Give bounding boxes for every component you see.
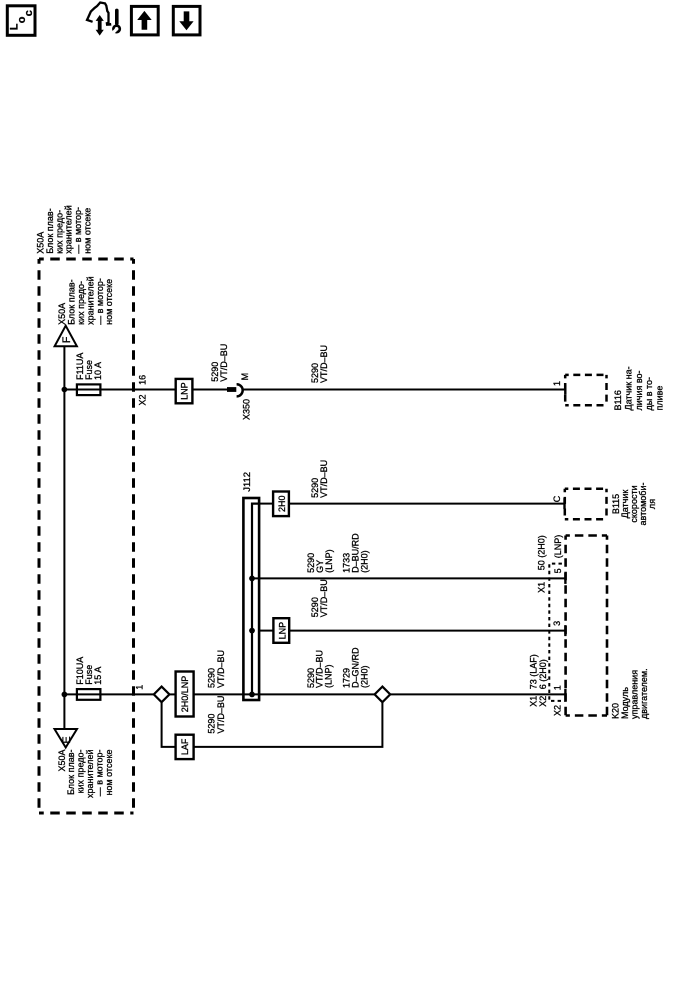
wire label 5290 VT/D-BU — [207, 650, 226, 688]
label fuse F11UA — [75, 353, 103, 380]
wire: J112 to 2H0 box — [259, 503, 273, 505]
svg-text:(LNP): (LNP) — [324, 664, 334, 688]
terminal at B116 pin 1 — [564, 385, 566, 395]
wire: bus through fuse F11UA to LNP box — [64, 389, 175, 391]
svg-text:K20: K20 — [611, 703, 621, 719]
label X350 — [241, 399, 251, 420]
connector X2 label — [137, 394, 147, 405]
wire: LAF box to right diamond — [194, 702, 383, 747]
svg-text:L: L — [9, 23, 21, 30]
fuse F10UA 15A — [77, 689, 101, 700]
wire: J112 to LNP box 2 — [259, 630, 273, 632]
connector X1/X2 labels — [529, 696, 548, 707]
toolbar button: down arrow box — [173, 6, 200, 35]
svg-text:ном отсеке: ном отсеке — [83, 208, 93, 254]
svg-text:VT/D–BU: VT/D–BU — [216, 696, 226, 734]
wire: right diamond to K20 — [390, 693, 565, 695]
svg-text:ном отсеке: ном отсеке — [104, 750, 114, 796]
toolbar icon: Loc diagonal letters — [9, 10, 36, 30]
toolbar icon: vehicle outline — [87, 3, 110, 25]
component B116 dashed box — [565, 375, 606, 405]
svg-text:пливе: пливе — [655, 386, 665, 411]
svg-text:X2: X2 — [553, 705, 563, 716]
label X50A fuse block (at E) — [57, 749, 114, 798]
svg-text:(2H0): (2H0) — [359, 665, 369, 688]
svg-text:50 (2H0): 50 (2H0) — [537, 535, 547, 570]
label K20 engine control module — [611, 668, 650, 719]
pin 16 — [137, 375, 147, 385]
option code box LNP (pin 3 wire) — [273, 618, 289, 643]
pin suffix (LNP) — [553, 535, 563, 559]
option code box LAF — [176, 735, 194, 759]
svg-text:LNP: LNP — [277, 622, 287, 640]
svg-text:J112: J112 — [242, 472, 253, 492]
svg-text:16: 16 — [137, 375, 147, 385]
junction diamond (splice) right — [375, 687, 391, 703]
wire: 2H0/LNP box through J112 to diamond right — [194, 693, 375, 695]
wire: branch down from left diamond — [162, 702, 176, 747]
svg-text:LAF: LAF — [180, 738, 190, 755]
junction node at fuse F11UA — [62, 387, 68, 393]
toolbar icon: double arrow — [96, 15, 104, 36]
svg-text:10 A: 10 A — [93, 362, 103, 380]
svg-text:VT/D–BU: VT/D–BU — [319, 345, 329, 383]
toolbar icon: wrench — [110, 10, 120, 35]
pin 50 (2H0) — [537, 535, 547, 570]
svg-text:двигателем.: двигателем. — [639, 668, 649, 719]
pin 3 — [552, 621, 562, 626]
svg-text:1: 1 — [552, 381, 562, 386]
pin 1 — [134, 685, 144, 690]
wire label 5290 VT/D-BU — [310, 460, 329, 498]
pin 5 — [553, 568, 563, 573]
svg-text:ном отсеке: ном отсеке — [104, 279, 114, 325]
terminal at K20 pin 3 — [564, 625, 566, 636]
svg-text:F: F — [61, 336, 73, 343]
wire label 5290 VT/D-BU — [210, 344, 229, 382]
svg-text:1: 1 — [553, 685, 563, 690]
wire: bus between triangles F and E — [63, 346, 65, 729]
wire: X350 to B116 — [243, 389, 565, 391]
component B115 dashed box — [565, 489, 607, 519]
svg-text:B116: B116 — [613, 390, 623, 410]
terminal at K20 pin 50/5 — [564, 573, 566, 584]
fuse F11UA 10A — [77, 384, 101, 395]
svg-text:1: 1 — [134, 685, 144, 690]
option code box 2H0 — [273, 492, 289, 517]
junction node J112 tap 2 — [249, 576, 255, 582]
label fuse F10UA — [75, 657, 103, 685]
wire label 5290 GY (LNP) — [306, 549, 334, 573]
svg-text:E: E — [61, 736, 73, 743]
svg-text:X2: X2 — [538, 696, 548, 707]
svg-text:(LNP): (LNP) — [324, 549, 334, 573]
svg-text:X2: X2 — [137, 394, 147, 405]
terminal at K20 pin 73/6 — [564, 689, 566, 700]
splice pack J112 internal bus — [252, 504, 259, 695]
svg-text:ды в то-: ды в то- — [644, 377, 654, 411]
svg-text:M: M — [240, 373, 250, 381]
junction node J112 tap 3 — [249, 628, 255, 634]
wire label 5290 VT/D-BU (LNP) — [306, 650, 334, 688]
label X50A fuse block (inner, at F) — [57, 276, 114, 325]
svg-text:VT/D–BU: VT/D–BU — [319, 460, 329, 498]
label X50A fuse block (outer) — [36, 205, 93, 254]
connector cavity M — [240, 373, 250, 381]
svg-text:2H0: 2H0 — [277, 496, 287, 513]
wire: 2H0 box to B115 — [289, 503, 564, 505]
junction node J112 bottom tap — [249, 692, 255, 698]
K20 connector X1 inner dashed boundary — [549, 564, 565, 700]
svg-text:управления: управления — [630, 670, 640, 719]
splice pack J112 outline — [243, 498, 259, 700]
connector X1 label — [537, 582, 547, 593]
wire: J112 to K20 pin 50 — [252, 577, 565, 579]
toolbar button: up arrow box — [131, 6, 158, 35]
junction node at fuse F10UA — [62, 692, 68, 698]
svg-text:личия во-: личия во- — [634, 370, 644, 410]
svg-text:(LNP): (LNP) — [553, 535, 563, 559]
pin C — [552, 495, 562, 502]
svg-text:C: C — [552, 495, 562, 502]
label J112 — [242, 472, 253, 492]
wire: LNP box to K20 pin 3 — [289, 630, 565, 632]
wire: diamond to 2H0/LNP box — [169, 693, 175, 695]
svg-text:3: 3 — [552, 621, 562, 626]
connector X2 label — [553, 705, 563, 716]
wire label 5290 VT/D-BU (LAF branch) — [207, 696, 226, 734]
svg-text:15 A: 15 A — [93, 667, 103, 685]
wire label 1733 D-BU/RD (2H0) — [342, 533, 370, 573]
option code box LNP (top wire) — [176, 379, 193, 403]
module K20 dashed box — [566, 536, 607, 716]
svg-text:LNP: LNP — [179, 382, 189, 400]
svg-text:Датчик на-: Датчик на- — [623, 366, 633, 410]
svg-text:2H0/LNP: 2H0/LNP — [180, 676, 190, 713]
inline connector X350 — [227, 384, 243, 396]
svg-text:ля: ля — [647, 499, 657, 509]
power feed triangle E — [55, 729, 78, 748]
wire: bus through fuse F10UA to left diamond — [64, 693, 153, 695]
svg-text:VT/D–BU: VT/D–BU — [216, 650, 226, 688]
svg-text:c: c — [23, 10, 35, 16]
toolbar icon: Loc button box — [7, 6, 35, 36]
pin 1 — [552, 381, 562, 386]
wire label 5290 VT/D-BU — [310, 345, 329, 383]
label B115 vehicle speed sensor — [611, 483, 657, 526]
fuse block X50A dashed outline — [39, 259, 134, 813]
wire label 5290 VT/D-BU — [310, 579, 329, 617]
pin 73 (LAF) / 6 (2H0) — [529, 654, 548, 689]
svg-text:VT/D–BU: VT/D–BU — [319, 579, 329, 617]
svg-text:VT/D–BU: VT/D–BU — [219, 344, 229, 382]
option code box 2H0/LNP — [176, 672, 194, 717]
svg-text:X1: X1 — [537, 582, 547, 593]
toolbar icon: down arrow — [179, 11, 193, 30]
svg-text:Модуль: Модуль — [620, 687, 630, 719]
toolbar icon: up arrow — [137, 11, 152, 30]
power feed triangle F — [55, 326, 77, 347]
svg-text:X350: X350 — [241, 399, 251, 420]
label B116 fuel water sensor — [613, 366, 665, 410]
svg-text:o: o — [16, 16, 28, 23]
K20 connector X2 inner dashed boundary — [551, 700, 565, 702]
svg-text:5: 5 — [553, 568, 563, 573]
terminal at B115 pin C — [563, 498, 565, 509]
wire: LNP box to connector X350 — [192, 389, 227, 391]
wire label 1729 D-GN/RD (2H0) — [342, 647, 370, 688]
junction diamond (splice) left — [154, 687, 170, 703]
svg-text:(2H0): (2H0) — [359, 550, 369, 573]
svg-text:6 (2H0): 6 (2H0) — [538, 659, 548, 689]
pin 1 — [553, 685, 563, 690]
